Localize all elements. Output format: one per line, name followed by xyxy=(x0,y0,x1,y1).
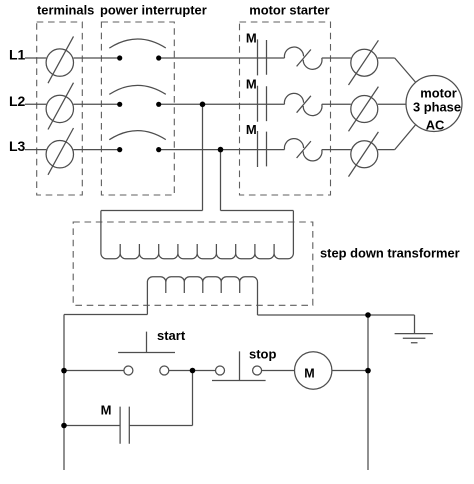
svg-text:power interrupter: power interrupter xyxy=(100,2,207,17)
svg-text:start: start xyxy=(157,328,186,343)
svg-text:3 phase: 3 phase xyxy=(413,100,461,115)
svg-text:L3: L3 xyxy=(9,138,26,154)
svg-text:M: M xyxy=(304,367,314,381)
svg-text:M: M xyxy=(246,77,257,92)
svg-text:terminals: terminals xyxy=(37,2,94,17)
svg-text:motor starter: motor starter xyxy=(249,2,329,17)
svg-text:L2: L2 xyxy=(9,93,26,109)
svg-text:M: M xyxy=(246,122,257,137)
svg-text:AC: AC xyxy=(426,118,445,133)
svg-text:M: M xyxy=(246,30,257,45)
svg-text:L1: L1 xyxy=(9,47,26,63)
svg-text:stop: stop xyxy=(249,346,277,361)
svg-text:step down transformer: step down transformer xyxy=(320,245,460,260)
svg-text:M: M xyxy=(101,403,112,418)
svg-text:motor: motor xyxy=(420,85,457,100)
